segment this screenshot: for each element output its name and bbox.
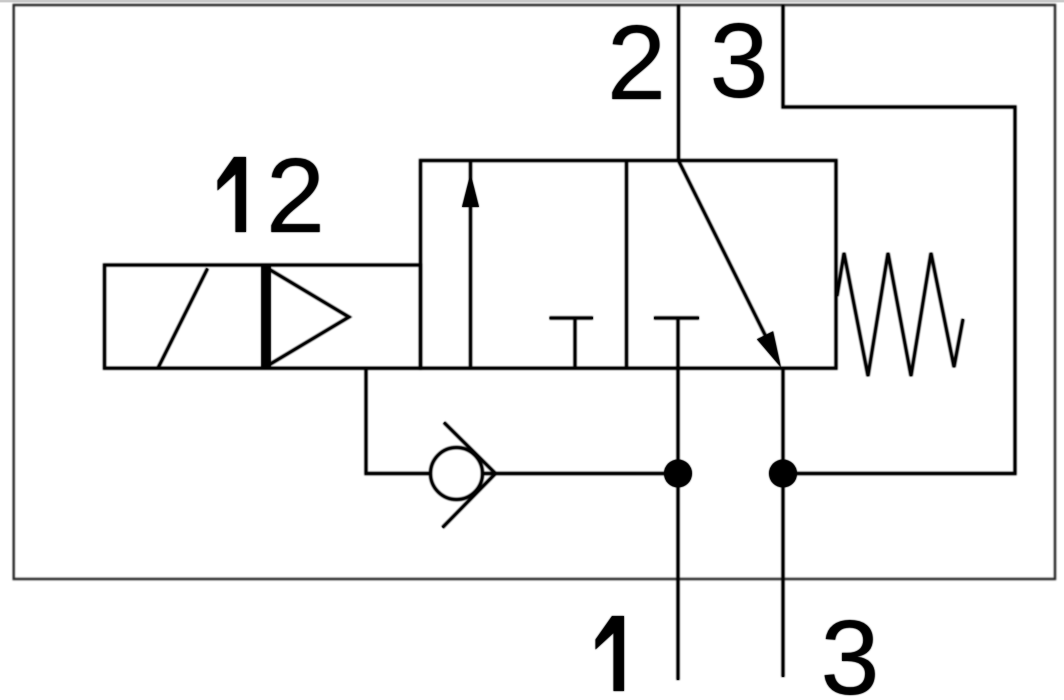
top gray strip <box>0 0 1064 2</box>
